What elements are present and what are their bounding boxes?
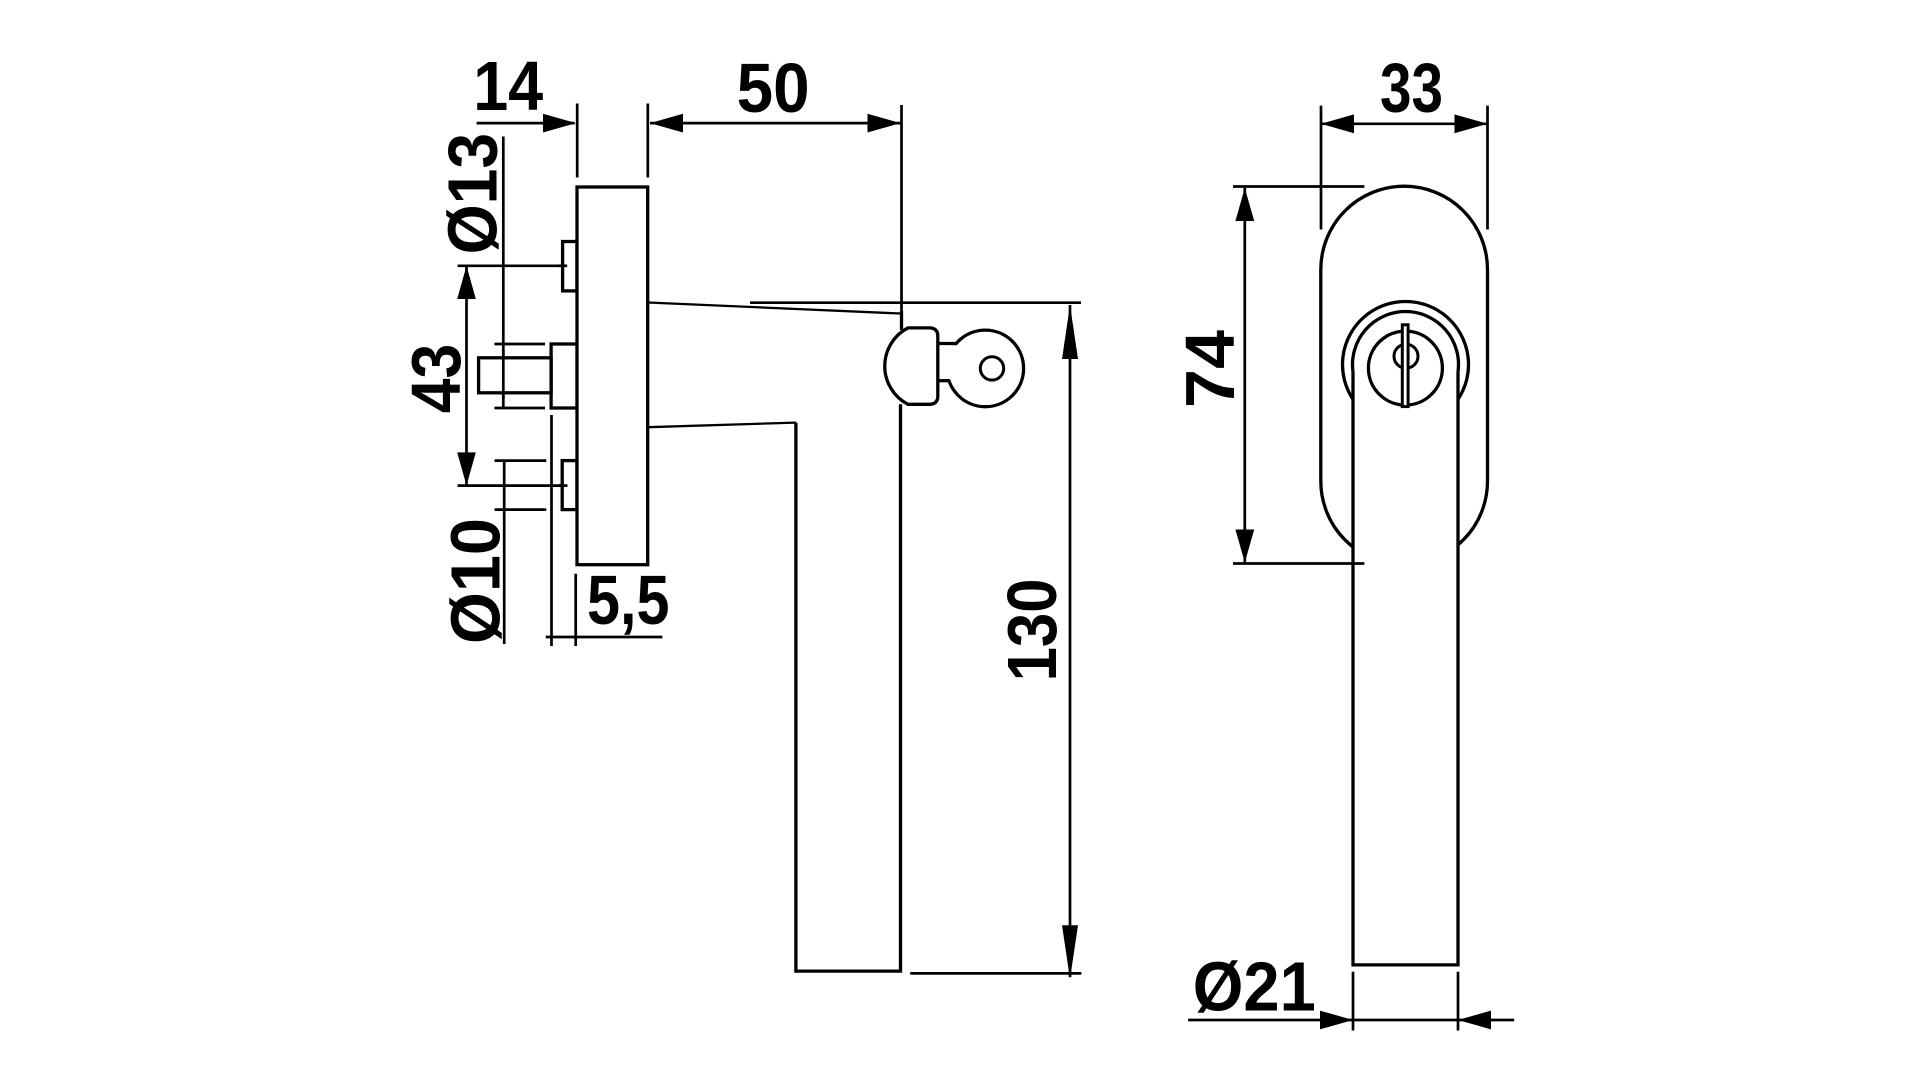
- svg-text:43: 43: [397, 344, 475, 414]
- svg-text:Ø10: Ø10: [436, 518, 514, 644]
- svg-text:Ø13: Ø13: [433, 133, 511, 255]
- svg-text:33: 33: [1380, 49, 1443, 127]
- svg-text:50: 50: [737, 49, 810, 127]
- svg-text:14: 14: [473, 47, 543, 125]
- svg-text:5,5: 5,5: [587, 561, 670, 639]
- svg-text:74: 74: [1171, 330, 1249, 408]
- svg-text:Ø21: Ø21: [1193, 948, 1316, 1026]
- svg-text:130: 130: [993, 578, 1071, 681]
